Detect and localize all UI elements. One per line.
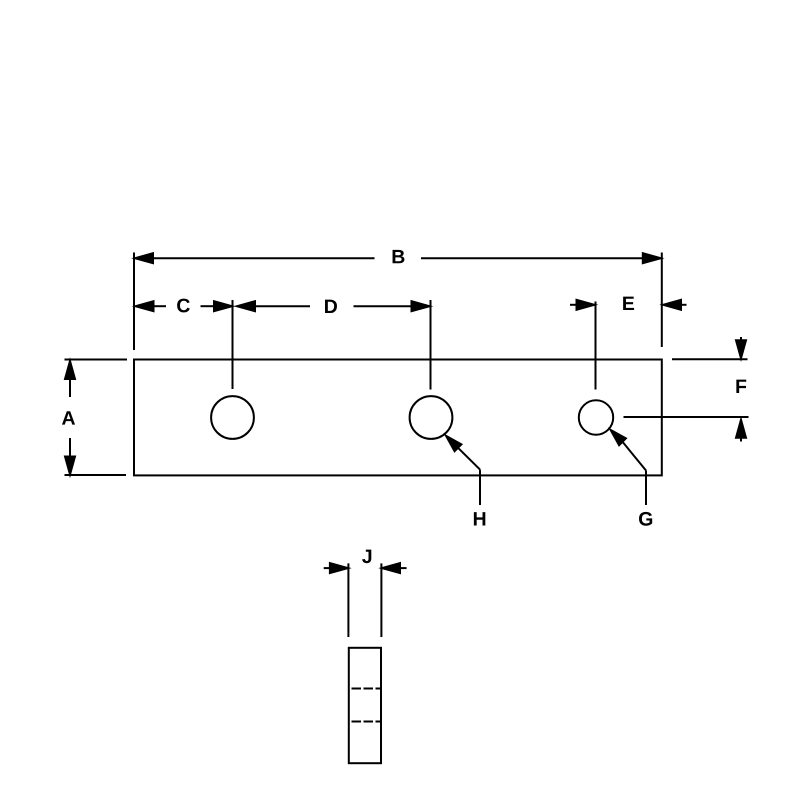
extension line right (dimension J) [380, 563, 382, 637]
dimension line A [65, 361, 75, 475]
extension line through hole 1 [232, 300, 234, 389]
extension line bottom (dimension A) [65, 474, 127, 476]
label B [393, 250, 405, 263]
extension line top (dimension A) [65, 359, 128, 361]
leader H (points to hole 2) [446, 436, 480, 505]
label A [62, 411, 75, 424]
label D [325, 300, 337, 313]
dimension line D [237, 301, 430, 311]
hole 3 (right) [579, 400, 613, 434]
label J [362, 550, 371, 564]
leader G (points to hole 3) [611, 430, 647, 505]
hidden hole line lower (side view) [352, 721, 381, 723]
extension line left (dimension B) [133, 253, 135, 351]
extension line left (dimension J) [347, 563, 349, 637]
hidden hole line upper (side view) [352, 688, 381, 690]
extension line through hole 2 [430, 300, 432, 390]
hole center line (dimension F) [624, 416, 749, 418]
extension line right (dimension B) [661, 253, 663, 348]
dimension line B [135, 253, 661, 263]
label H [474, 512, 485, 525]
dimension line E (arrows outside) [570, 300, 687, 310]
label G [639, 512, 652, 526]
extension line through hole 3 [595, 302, 597, 390]
hole 2 (middle) [410, 396, 453, 439]
dimension line F (arrows outside) [736, 337, 746, 442]
dimension line J (arrows outside) [324, 563, 407, 573]
bar outline (front view) [134, 360, 662, 476]
extension line of bar top edge (dimension F) [672, 358, 748, 360]
label F [736, 380, 746, 393]
dimension line C [136, 301, 233, 311]
label C [177, 299, 190, 313]
label E [623, 297, 634, 310]
hole 1 (left) [211, 396, 254, 439]
bar outline (side view) [349, 648, 381, 763]
